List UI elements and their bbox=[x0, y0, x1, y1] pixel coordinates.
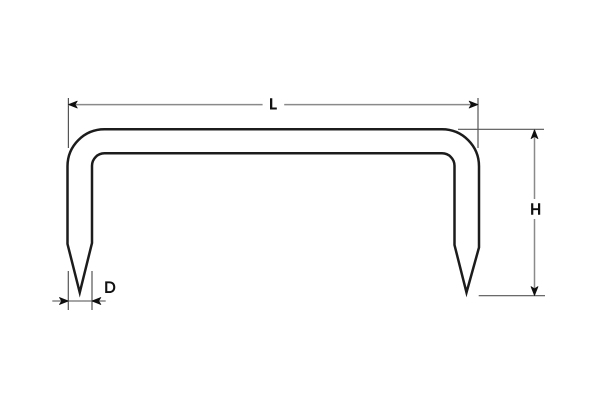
extension line bottom for H bbox=[479, 295, 545, 297]
label D bbox=[105, 281, 115, 293]
dimension line H (bottom segment) bbox=[534, 219, 536, 296]
extension line right for D bbox=[91, 271, 93, 310]
dimension line H (top segment) bbox=[534, 130, 536, 199]
extension line left for D bbox=[67, 271, 69, 310]
staple body outline bbox=[68, 129, 480, 292]
label L bbox=[270, 98, 277, 109]
arrowhead L right bbox=[469, 101, 478, 108]
arrowhead D left bbox=[59, 298, 68, 305]
extension line top for H bbox=[458, 128, 544, 130]
extension line left for L bbox=[67, 98, 69, 148]
dimension line D bbox=[52, 300, 105, 302]
extension line right for L bbox=[477, 98, 479, 148]
arrowhead L left bbox=[68, 101, 77, 108]
dimension line L (right segment) bbox=[284, 104, 478, 106]
label H bbox=[531, 203, 540, 215]
arrowhead H down bbox=[531, 287, 538, 296]
dimension line L (left segment) bbox=[68, 104, 262, 106]
arrowhead D right bbox=[92, 298, 101, 305]
arrowhead H up bbox=[531, 130, 538, 139]
